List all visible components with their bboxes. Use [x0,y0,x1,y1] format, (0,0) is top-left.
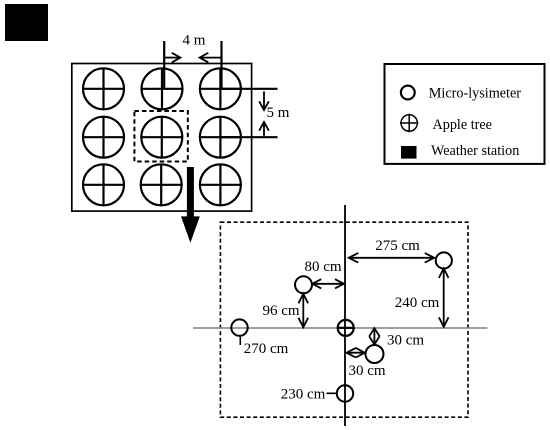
apple tree row2 col3 [200,116,242,158]
96 cm dimension arrow [299,294,309,328]
micro-lysimeter 30 cm [366,345,384,363]
4 m reference line right [220,41,222,89]
dashed square around sampled tree [134,111,187,162]
svg-text:270 cm: 270 cm [244,341,289,357]
svg-text:30 cm: 30 cm [387,333,424,349]
apple tree row2 col1 [83,116,125,158]
275 cm dimension arrow [349,253,435,263]
5 m reference line top [220,88,277,90]
apple tree row1 col2 [141,68,183,110]
4 m arrow right (points left) [200,53,222,63]
legend weather station symbol [401,146,417,159]
svg-text:Micro-lysimeter: Micro-lysimeter [429,85,521,101]
svg-text:Weather station: Weather station [431,143,519,159]
legend box [385,64,545,164]
svg-text:80 cm: 80 cm [304,259,341,275]
legend apple tree symbol [400,114,418,132]
tree row vertical line [344,205,346,426]
sampling area dashed rectangle [220,222,468,417]
micro-lysimeter center (at tree, with cross) [338,320,354,336]
svg-text:Apple tree: Apple tree [433,117,492,133]
apple tree row3 col3 [200,164,242,206]
30 cm (right) dimension arrow [369,328,379,344]
apple tree row2 col2 (sampled tree) [141,116,183,158]
30 cm (bottom) dimension arrow [347,348,365,358]
apple tree row3 col2 [140,164,182,206]
apple tree row1 col1 [83,68,125,110]
4 m arrow left (points right) [164,53,180,63]
80 cm dimension arrow [312,279,344,288]
svg-text:96 cm: 96 cm [262,303,299,319]
230 cm leader tick [327,392,338,394]
svg-text:4 m: 4 m [183,33,206,49]
micro-lysimeter top-right (275/240 cm) [436,252,452,268]
micro-lysimeter bottom (230 cm) [337,385,353,401]
240 cm dimension arrow [439,268,449,326]
5 m arrow up [259,122,269,137]
svg-text:30 cm: 30 cm [348,363,385,379]
svg-text:230 cm: 230 cm [281,387,326,403]
weather station (field, top-left black square) [5,4,48,41]
thick transect arrow [181,167,200,243]
orchard plot box [72,64,252,212]
svg-text:5 m: 5 m [267,105,290,121]
svg-text:240 cm: 240 cm [395,295,440,311]
4 m reference line left [163,41,165,89]
micro-lysimeter left (270 cm) [231,319,247,335]
apple tree row3 col1 [83,164,125,206]
micro-lysimeter 80 cm [295,276,312,293]
apple tree row1 col3 [200,68,242,110]
270 cm leader tick [239,336,241,345]
svg-text:275 cm: 275 cm [375,238,420,254]
5 m arrow down [259,92,269,111]
legend micro-lysimeter symbol [401,86,415,100]
5 m reference line bottom [220,136,277,138]
inter-row horizontal line (gray) [193,327,488,329]
